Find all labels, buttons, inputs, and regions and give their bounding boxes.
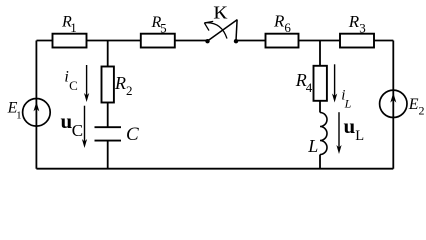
wire bottom: [36, 168, 393, 170]
svg-text:uC: uC: [61, 109, 84, 140]
capacitor C: [95, 124, 140, 145]
svg-text:R6: R6: [273, 11, 291, 35]
switch terminal left: [205, 39, 209, 43]
voltage arrow uL: [336, 112, 364, 154]
current arrow iL: [332, 64, 352, 110]
wire top right segment: [236, 40, 393, 42]
voltage arrow uC: [61, 106, 88, 148]
switch terminal right: [234, 39, 238, 43]
svg-text:E1: E1: [7, 99, 22, 121]
source E1: [7, 99, 51, 127]
inductor L: [307, 113, 327, 156]
arrow of source E2: [390, 93, 396, 103]
svg-text:iC: iC: [64, 69, 77, 93]
resistor R2: [102, 67, 133, 103]
resistor R5: [141, 14, 175, 48]
resistor R3: [340, 12, 374, 48]
arrow of source E1: [34, 102, 40, 112]
switch opening arrow: [204, 23, 227, 39]
source E2: [380, 90, 425, 117]
resistor R4: [295, 66, 327, 101]
wire inductor branch lower: [319, 155, 321, 169]
svg-text:R1: R1: [61, 14, 77, 35]
wire right vertical: [392, 41, 394, 169]
svg-text:iL: iL: [341, 87, 351, 110]
svg-text:E2: E2: [408, 96, 425, 118]
wire left vertical: [35, 41, 37, 169]
svg-text:L: L: [307, 136, 318, 156]
switch right lead: [236, 20, 237, 41]
switch K: [204, 3, 238, 44]
current arrow iC: [64, 65, 89, 102]
svg-text:R4: R4: [295, 70, 313, 95]
svg-text:R2: R2: [114, 73, 133, 98]
wire top left segment: [37, 40, 208, 42]
svg-text:R5: R5: [151, 14, 167, 36]
svg-text:uL: uL: [344, 114, 365, 144]
wire capacitor branch upper: [107, 41, 109, 128]
svg-text:R3: R3: [348, 12, 366, 36]
switch blade: [208, 20, 238, 41]
wire inductor branch upper: [319, 41, 321, 113]
resistor R6: [266, 11, 299, 47]
wire capacitor branch lower: [107, 141, 109, 169]
resistor R1: [53, 14, 87, 48]
svg-text:К: К: [213, 3, 228, 23]
svg-text:C: C: [126, 124, 139, 145]
